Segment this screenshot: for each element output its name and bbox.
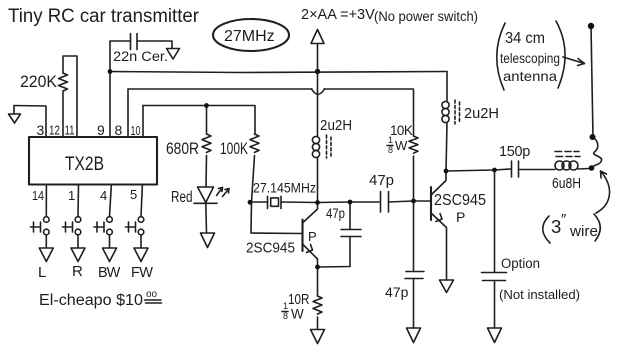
svg-text:680R: 680R <box>166 140 199 158</box>
svg-text:2SC945: 2SC945 <box>434 192 486 209</box>
svg-text:1: 1 <box>388 135 393 145</box>
svg-text:″: ″ <box>561 211 567 228</box>
svg-text:4: 4 <box>100 188 107 203</box>
svg-text:8: 8 <box>388 145 393 155</box>
svg-text:14: 14 <box>32 188 44 203</box>
svg-text:Red: Red <box>171 189 193 206</box>
svg-text:Tiny RC car transmitter: Tiny RC car transmitter <box>8 6 200 27</box>
svg-text:8: 8 <box>115 122 123 138</box>
svg-text:3: 3 <box>551 216 561 237</box>
svg-text:47p: 47p <box>369 172 394 189</box>
svg-text:W: W <box>395 138 408 153</box>
svg-text:BW: BW <box>98 265 121 281</box>
svg-text:100K: 100K <box>220 140 248 158</box>
svg-text:telescoping: telescoping <box>500 50 560 66</box>
svg-text:9: 9 <box>97 122 105 138</box>
svg-text:L: L <box>38 264 46 281</box>
svg-text:2SC945: 2SC945 <box>246 241 295 257</box>
svg-text:47p: 47p <box>326 205 345 221</box>
svg-text:2u2H: 2u2H <box>464 105 499 122</box>
svg-text:5: 5 <box>130 187 137 202</box>
svg-text:6u8H: 6u8H <box>552 175 581 192</box>
svg-text:(Not installed): (Not installed) <box>499 287 580 302</box>
svg-text:220K: 220K <box>20 72 58 91</box>
svg-text:10K: 10K <box>390 123 413 138</box>
svg-text:P: P <box>308 229 317 244</box>
svg-text:1: 1 <box>68 188 75 203</box>
svg-text:150p: 150p <box>499 144 530 160</box>
svg-text:22n Cer.: 22n Cer. <box>113 49 168 64</box>
svg-text:wire: wire <box>569 224 598 240</box>
svg-text:27MHz: 27MHz <box>224 28 275 45</box>
svg-text:10: 10 <box>131 123 141 138</box>
svg-text:W: W <box>291 307 304 322</box>
svg-text:3: 3 <box>37 122 45 138</box>
svg-text:10R: 10R <box>288 291 310 308</box>
svg-text:34 cm: 34 cm <box>505 30 545 47</box>
svg-text:1: 1 <box>283 301 288 311</box>
svg-text:oo: oo <box>146 289 158 300</box>
svg-text:2u2H: 2u2H <box>320 118 352 134</box>
svg-text:2×AA =+3V: 2×AA =+3V <box>301 7 375 23</box>
svg-text:El-cheapo $10: El-cheapo $10 <box>39 292 143 309</box>
svg-text:8: 8 <box>283 311 288 321</box>
svg-text:TX2B: TX2B <box>65 154 104 175</box>
svg-text:47p: 47p <box>385 284 409 300</box>
svg-text:(No power switch): (No power switch) <box>374 9 478 24</box>
svg-text:11: 11 <box>65 123 75 138</box>
svg-text:P: P <box>456 209 465 225</box>
svg-text:FW: FW <box>131 265 153 281</box>
svg-text:12: 12 <box>49 123 60 138</box>
svg-text:antenna: antenna <box>503 68 557 84</box>
svg-text:Option: Option <box>501 256 540 271</box>
svg-text:R: R <box>72 263 83 280</box>
svg-text:27.145MHz: 27.145MHz <box>253 180 316 196</box>
